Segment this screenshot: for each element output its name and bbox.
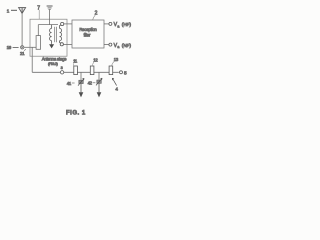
label 10	[7, 45, 12, 50]
antenna 1	[19, 8, 26, 14]
ground under primary	[49, 43, 54, 48]
caption FIG.1	[66, 110, 86, 116]
transformer core	[55, 27, 57, 42]
svg-text:a: a	[117, 45, 119, 49]
ground arrow 2	[97, 92, 102, 97]
output Va (NF)	[104, 43, 131, 49]
terminal circle secondary bottom	[60, 43, 63, 46]
antenna stage caption	[42, 57, 67, 67]
svg-text:a: a	[117, 24, 119, 28]
terminal circle secondary top	[61, 22, 64, 25]
label 21	[20, 49, 26, 56]
label 42	[88, 81, 96, 86]
wire to reception filter top	[64, 23, 72, 25]
wire antenna mast	[21, 13, 23, 45]
choke 11	[73, 59, 78, 75]
label 2	[93, 11, 98, 20]
label 1	[7, 8, 17, 13]
output Va (HF)	[104, 22, 131, 28]
wire riser	[37, 25, 39, 36]
label 7	[37, 5, 40, 19]
label 4 with arrow	[112, 78, 118, 91]
svg-text:(FIG.2): (FIG.2)	[48, 62, 58, 66]
connector junction 21	[21, 46, 24, 49]
wire to reception filter bottom	[63, 44, 72, 46]
wire chassis drop	[49, 10, 51, 25]
svg-text:(NF): (NF)	[122, 43, 132, 48]
svg-text:Antenna stage: Antenna stage	[42, 57, 67, 62]
chassis terminal	[47, 6, 53, 10]
leader from label 10	[13, 46, 19, 48]
wire drop to bottom rail	[31, 47, 33, 72]
connector circle 3	[60, 66, 63, 74]
svg-text:3: 3	[61, 66, 63, 70]
antenna stage box	[30, 19, 67, 56]
svg-text:filter: filter	[84, 32, 91, 37]
choke 13	[109, 57, 119, 75]
choke 12	[90, 58, 98, 75]
element 11a (series element in antenna stage)	[36, 25, 40, 50]
wire inner top	[38, 24, 58, 26]
label 41	[67, 81, 75, 86]
svg-text:(HF): (HF)	[122, 22, 132, 27]
transformer secondary coil	[60, 25, 62, 43]
transformer primary coil	[50, 25, 52, 44]
wire junction to antenna stage	[24, 46, 36, 48]
bottom rail	[32, 71, 119, 73]
reception filter box	[72, 20, 104, 48]
ground arrow 1	[79, 92, 84, 97]
svg-text:7: 7	[37, 5, 40, 11]
svg-text:4: 4	[115, 86, 118, 91]
trimmer capacitor 42	[96, 72, 102, 92]
terminal 5	[120, 71, 128, 77]
svg-text:5: 5	[124, 71, 127, 77]
trimmer capacitor 41	[78, 72, 84, 92]
svg-text:FIG. 1: FIG. 1	[66, 110, 86, 116]
